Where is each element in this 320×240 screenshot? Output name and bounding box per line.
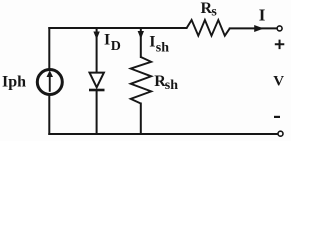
svg-text:I: I xyxy=(104,31,110,48)
svg-text:Iph: Iph xyxy=(2,73,26,90)
svg-text:sh: sh xyxy=(165,78,178,93)
svg-text:I: I xyxy=(259,6,266,25)
svg-text:sh: sh xyxy=(156,41,169,56)
svg-text:s: s xyxy=(211,4,217,19)
svg-text:I: I xyxy=(149,34,155,51)
svg-text:D: D xyxy=(111,39,121,54)
svg-text:V: V xyxy=(273,74,284,90)
